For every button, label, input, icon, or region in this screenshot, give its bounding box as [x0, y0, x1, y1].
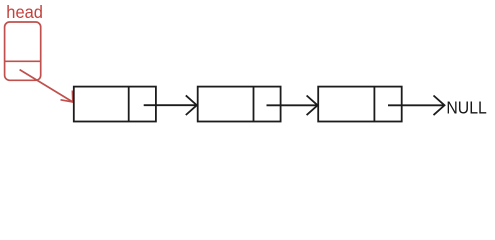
node 1 divider — [128, 87, 130, 122]
node 3 divider — [373, 87, 375, 122]
wire: arrow node2->node3 — [267, 104, 318, 106]
arrowhead node2 — [186, 95, 197, 115]
head pointer box — [5, 22, 41, 80]
wire: arrow node1->node2 — [144, 104, 197, 106]
svg-text:NULL: NULL — [446, 98, 487, 118]
wire: arrow node3->NULL — [388, 104, 445, 106]
wire: red arrow head->node1 shaft — [20, 70, 73, 102]
node 3 box — [318, 87, 402, 122]
node 2 divider — [253, 87, 255, 122]
red arrowhead — [61, 91, 73, 103]
arrowhead NULL — [434, 96, 445, 116]
node 2 box — [198, 87, 281, 122]
svg-text:head: head — [6, 2, 43, 22]
arrowhead node3 — [307, 96, 318, 116]
node 1 box — [74, 87, 156, 122]
head box divider — [5, 60, 41, 62]
